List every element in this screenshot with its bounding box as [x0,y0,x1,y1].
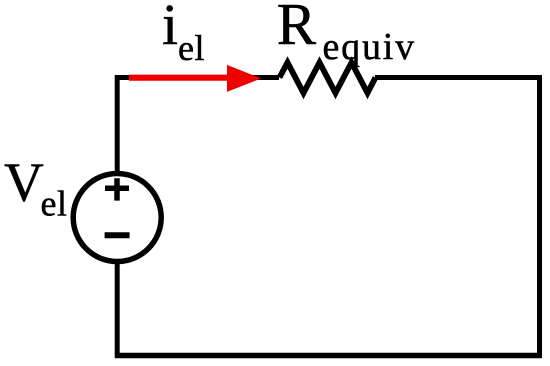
voltage source V_el circle [73,174,161,262]
plus sign inside source [105,178,129,200]
wire top-left horizontal segment [115,75,279,80]
current arrow head (red) [227,65,261,92]
wire right vertical segment [537,75,542,356]
wire top-right horizontal segment [375,75,542,80]
svg-text:V: V [4,151,44,212]
minus sign inside source [105,232,130,238]
resistor Requiv zigzag [280,63,376,94]
svg-text:i: i [162,0,178,57]
wire left vertical lower segment [115,258,120,358]
wire left vertical upper segment [115,75,120,173]
svg-text:el: el [41,183,68,223]
wire bottom horizontal segment [115,353,542,359]
current arrow shaft (red) [129,75,233,81]
svg-text:el: el [178,28,205,68]
svg-text:R: R [277,0,317,57]
svg-text:equiv: equiv [323,26,416,68]
